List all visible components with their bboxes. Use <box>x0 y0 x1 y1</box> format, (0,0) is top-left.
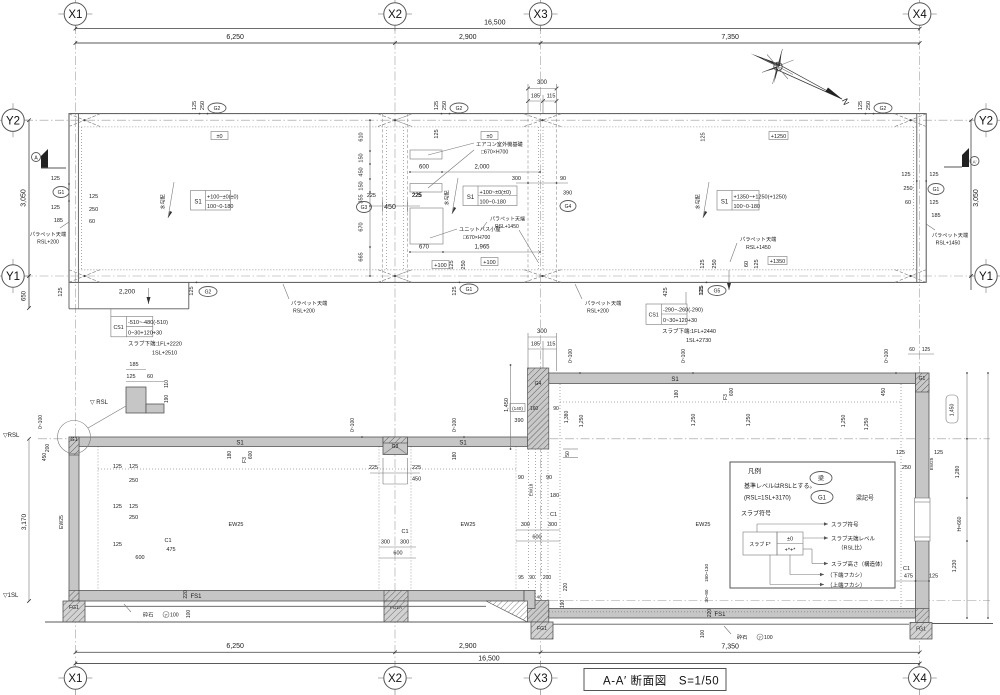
grid line X2 <box>394 25 396 662</box>
section slab S1 right <box>549 373 916 384</box>
svg-text:150: 150 <box>359 153 365 162</box>
svg-text:100~0-180: 100~0-180 <box>207 204 233 210</box>
svg-text:220: 220 <box>707 609 713 618</box>
svg-text:225: 225 <box>412 465 421 471</box>
svg-text:□670×H700: □670×H700 <box>481 150 508 156</box>
svg-text:水勾配: 水勾配 <box>695 194 702 209</box>
left dim 3170 <box>21 415 51 603</box>
section G4 label <box>535 381 542 387</box>
svg-text:95: 95 <box>518 575 524 581</box>
plan junction cross X3/Y2 <box>524 114 561 127</box>
section wall-slab junction hatch X1 <box>69 591 79 602</box>
legend slab label <box>741 510 771 518</box>
svg-text:FG1: FG1 <box>69 605 79 611</box>
plan S1 tag mid room <box>463 186 517 206</box>
svg-text:水勾配: 水勾配 <box>160 194 167 209</box>
section dotted ceiling left <box>98 468 516 470</box>
plan right wall labels <box>901 172 944 219</box>
svg-text:RSL+200: RSL+200 <box>587 309 609 315</box>
1SL level line right <box>549 600 990 602</box>
grid bubble X4 top <box>903 0 937 31</box>
svg-text:1SL+2730: 1SL+2730 <box>686 338 711 344</box>
svg-text:G1: G1 <box>466 287 473 293</box>
plan bottom label G1 mid <box>449 260 478 295</box>
section wall-slab junction hatch X2 <box>384 591 408 602</box>
plan level box ±0 mid <box>481 132 498 140</box>
svg-text:RSL+1450: RSL+1450 <box>495 224 519 230</box>
room label EW25 left <box>229 522 244 528</box>
svg-text:6,250: 6,250 <box>226 643 244 650</box>
svg-text:0~30+120+30: 0~30+120+30 <box>128 331 162 337</box>
top dim 16500 <box>74 20 922 31</box>
section beam G3 X2 <box>383 437 408 455</box>
svg-text:EW25: EW25 <box>59 515 65 529</box>
svg-text:1,230: 1,230 <box>952 560 958 573</box>
right room dims <box>691 414 847 428</box>
X2 beam dims <box>369 458 421 484</box>
svg-text:1,250: 1,250 <box>864 418 870 431</box>
svg-text:Y2: Y2 <box>6 115 20 127</box>
room label EW25 right <box>696 522 711 528</box>
svg-text:125: 125 <box>89 194 98 200</box>
section ground line left <box>45 621 531 623</box>
svg-text:スラブ符号: スラブ符号 <box>831 521 859 529</box>
legend line2 <box>744 496 791 502</box>
parapet note below plan <box>283 284 327 315</box>
CS1 tag left <box>111 309 182 357</box>
svg-text:250: 250 <box>712 259 718 268</box>
svg-text:180: 180 <box>674 390 680 399</box>
svg-text:60: 60 <box>744 261 750 267</box>
svg-text:S1: S1 <box>236 440 244 446</box>
section slab FS1 right <box>549 609 916 619</box>
svg-text:RSL+200: RSL+200 <box>37 240 59 246</box>
svg-text:125: 125 <box>51 205 60 211</box>
section wall X4 beam hatch <box>916 373 930 392</box>
svg-text:砕石: 砕石 <box>143 611 153 619</box>
svg-text:スラブ F*: スラブ F* <box>749 541 770 548</box>
svg-text:パラペット天端: パラペット天端 <box>932 231 968 239</box>
svg-text:砕石: 砕石 <box>737 633 747 641</box>
svg-text:凡例: 凡例 <box>748 466 761 475</box>
svg-text:A-A′ 断面図 S=1/50: A-A′ 断面図 S=1/50 <box>603 674 719 688</box>
plan bottom label G5 right <box>699 259 726 295</box>
svg-text:600: 600 <box>135 555 144 561</box>
svg-text:1,965: 1,965 <box>474 245 490 251</box>
grid bubble X3 top <box>524 0 558 31</box>
underslab dims left <box>227 451 254 463</box>
canopy below plan <box>69 282 189 308</box>
svg-text:G3: G3 <box>392 444 399 450</box>
plan bottom label G2 left <box>189 282 217 297</box>
svg-text:3,050: 3,050 <box>21 189 28 207</box>
svg-text:425: 425 <box>663 287 669 296</box>
plan slope arrow mid <box>444 178 459 214</box>
legend box <box>730 462 895 588</box>
svg-text:100~0-180: 100~0-180 <box>734 204 760 210</box>
svg-text:+100~±0(±0): +100~±0(±0) <box>207 194 239 200</box>
svg-text:梁: 梁 <box>818 475 824 483</box>
svg-text:390: 390 <box>563 191 572 197</box>
section gravel line right <box>553 623 909 625</box>
svg-text:600: 600 <box>393 551 402 557</box>
svg-text:180: 180 <box>227 451 233 460</box>
X2 lower dims <box>379 529 416 558</box>
svg-text:G1: G1 <box>70 437 77 443</box>
section wall X1 <box>69 437 79 601</box>
svg-text:0~100: 0~100 <box>681 349 687 363</box>
svg-text:X4: X4 <box>913 673 928 685</box>
svg-text:（下端フカシ）: （下端フカシ） <box>827 571 866 579</box>
svg-text:X4: X4 <box>913 9 928 21</box>
section wall-slab junction hatch X4 <box>916 609 930 623</box>
grid bubble Y1 left <box>0 259 30 293</box>
plan parapet note right room <box>730 235 776 262</box>
bottom dim row1 <box>74 643 922 654</box>
section dotted interior mid room <box>411 447 516 601</box>
svg-text:パラペット天端: パラペット天端 <box>30 230 66 238</box>
FS1 right dims <box>700 609 713 639</box>
section G1 bubble X1 <box>58 421 91 454</box>
svg-text:125: 125 <box>449 260 455 269</box>
plan parapet note right outside <box>926 224 968 247</box>
svg-text:G1: G1 <box>933 187 940 193</box>
svg-text:600: 600 <box>419 165 430 171</box>
unit bath note <box>430 225 501 241</box>
svg-text:1,250: 1,250 <box>841 415 847 428</box>
svg-text:150: 150 <box>359 181 365 190</box>
svg-text:▽ RSL: ▽ RSL <box>90 400 109 406</box>
svg-text:300: 300 <box>400 540 409 546</box>
svg-text:+100: +100 <box>483 260 495 266</box>
svg-text:2,200: 2,200 <box>119 289 136 296</box>
svg-text:185: 185 <box>531 342 540 348</box>
section slab FS1 left <box>78 591 524 602</box>
svg-text:6,250: 6,250 <box>226 34 244 41</box>
svg-text:90: 90 <box>560 176 566 182</box>
svg-text:G1: G1 <box>58 190 65 196</box>
svg-text:225: 225 <box>412 193 421 199</box>
svg-text:30~80: 30~80 <box>704 589 709 602</box>
section window X4 <box>915 498 931 541</box>
svg-text:RSL+200: RSL+200 <box>293 309 315 315</box>
section FS1 right dotted <box>549 611 915 613</box>
svg-text:475: 475 <box>166 547 175 553</box>
plan right wall dotted line <box>912 127 914 270</box>
svg-text:90: 90 <box>553 406 559 412</box>
above-slab 0-100 labels <box>350 349 897 438</box>
svg-text:115: 115 <box>547 342 556 348</box>
svg-text:250: 250 <box>129 515 138 521</box>
FS1 left dims <box>183 590 192 618</box>
svg-text:225: 225 <box>369 465 378 471</box>
svg-text:225: 225 <box>367 193 376 199</box>
svg-text:FG1A: FG1A <box>390 605 403 610</box>
far right dim line <box>987 372 989 619</box>
plan dim column left of X2 <box>359 119 371 277</box>
section wall X1 beam hatch <box>69 437 79 455</box>
mid room dim 670/1965 <box>409 245 541 253</box>
parapet detail L-shape <box>88 362 170 428</box>
svg-text:180: 180 <box>550 493 559 499</box>
X3 bottom dims <box>518 564 709 609</box>
svg-text:100: 100 <box>700 630 706 639</box>
plan top label G2 mid <box>434 101 468 115</box>
grid bubble Y2 left <box>0 103 30 137</box>
svg-text:220: 220 <box>563 583 569 592</box>
svg-text:スラブ符号: スラブ符号 <box>741 510 771 518</box>
plan slope arrow left <box>160 182 175 218</box>
X3 below-plan dims <box>528 329 557 371</box>
svg-text:水勾配: 水勾配 <box>444 190 451 205</box>
svg-text:Y2: Y2 <box>979 115 993 127</box>
svg-text:125: 125 <box>113 542 122 548</box>
svg-text:X3: X3 <box>534 9 548 21</box>
plan X3 dims 300-90 <box>512 176 576 212</box>
unit bath rect <box>410 208 443 244</box>
legend callouts <box>757 521 886 590</box>
svg-text:+1250: +1250 <box>771 134 786 140</box>
svg-text:100: 100 <box>764 635 773 641</box>
svg-text:125: 125 <box>922 347 931 353</box>
svg-text:+1350: +1350 <box>770 259 785 265</box>
svg-text:125: 125 <box>699 285 705 294</box>
svg-text:-290~-260(-290): -290~-260(-290) <box>663 308 703 314</box>
svg-text:S1: S1 <box>721 199 729 205</box>
svg-text:125: 125 <box>51 176 60 182</box>
svg-text:125: 125 <box>858 101 864 110</box>
svg-text:665: 665 <box>359 252 365 261</box>
svg-text:H=660: H=660 <box>957 516 963 531</box>
CS1 tag right <box>646 292 716 344</box>
section ground line beyond X4 <box>932 623 993 625</box>
detail RSL marker <box>90 400 109 406</box>
svg-text:670: 670 <box>419 245 430 251</box>
svg-text:200: 200 <box>45 444 51 453</box>
svg-text:185: 185 <box>54 218 63 224</box>
svg-text:250: 250 <box>442 101 448 110</box>
svg-text:100: 100 <box>170 613 179 619</box>
plan junction cross X2/Y2 <box>378 114 412 127</box>
plan S1 tag left room <box>191 191 239 211</box>
svg-text:3,170: 3,170 <box>21 513 28 530</box>
svg-text:パラペット天端: パラペット天端 <box>490 216 525 223</box>
svg-text:40: 40 <box>536 595 542 600</box>
grid line Y2 <box>24 119 975 121</box>
section step block <box>524 591 535 609</box>
plan junction cross X4/Y2 <box>895 114 926 127</box>
svg-text:125: 125 <box>754 259 760 268</box>
svg-text:±0: ±0 <box>216 134 222 140</box>
svg-text:1,280: 1,280 <box>955 466 961 479</box>
svg-text:610: 610 <box>359 132 365 141</box>
svg-text:RSL+1450: RSL+1450 <box>936 241 961 247</box>
svg-text:0~100: 0~100 <box>350 418 356 432</box>
svg-text:1,250: 1,250 <box>579 415 585 428</box>
section dotted ceiling right <box>560 401 901 403</box>
svg-text:190: 190 <box>164 395 170 404</box>
plan S1 tag right room <box>717 191 787 211</box>
svg-text:300: 300 <box>381 540 390 546</box>
svg-text:600: 600 <box>248 451 254 460</box>
svg-text:C1: C1 <box>164 538 171 544</box>
parapet note below plan right <box>575 284 621 315</box>
plan level box ±0 left <box>211 132 228 140</box>
svg-text:0~30+120+30: 0~30+120+30 <box>663 318 697 324</box>
aircon base rect 2 <box>410 184 442 193</box>
svg-text:190: 190 <box>560 600 566 609</box>
svg-text:EW25: EW25 <box>696 522 711 528</box>
mid room dim 600/2000 <box>409 165 541 173</box>
svg-text:S1: S1 <box>671 377 679 383</box>
svg-text:スラブ下端:1FL+2440: スラブ下端:1FL+2440 <box>662 327 716 335</box>
plan X3 top dims <box>526 80 558 114</box>
svg-text:0~100: 0~100 <box>38 415 44 429</box>
grid bubble Y2 right <box>969 103 1000 137</box>
svg-text:1,250: 1,250 <box>691 414 697 427</box>
svg-text:650: 650 <box>22 290 28 301</box>
grid line X4 <box>919 25 921 662</box>
bottom dim 16500 <box>74 656 922 666</box>
svg-text:S1: S1 <box>459 440 467 446</box>
svg-text:220: 220 <box>183 590 189 599</box>
svg-text:基準レベルはRSLとする。: 基準レベルはRSLとする。 <box>744 482 816 490</box>
plan level box +100 left <box>432 261 449 269</box>
svg-text:125: 125 <box>896 450 905 456</box>
svg-text:G4: G4 <box>565 204 572 210</box>
plan level box +100 mid <box>481 258 498 266</box>
section mark A' right <box>944 148 979 167</box>
plan X3 partition dashed <box>528 114 557 283</box>
gravel note left <box>124 604 179 619</box>
section slab S1 left <box>78 437 527 447</box>
title box <box>584 669 726 691</box>
plan junction cross X4/Y1 <box>895 270 926 283</box>
top dim row2 <box>74 34 922 45</box>
section column X3 hidden <box>529 449 549 601</box>
section footing FG1A X2 <box>384 601 408 622</box>
svg-text:160: 160 <box>530 406 539 412</box>
svg-text:60: 60 <box>905 200 911 206</box>
svg-text:125: 125 <box>901 172 910 178</box>
svg-text:125: 125 <box>434 101 440 110</box>
svg-text:スラブ天端レベル: スラブ天端レベル <box>831 535 876 543</box>
svg-text:50: 50 <box>565 451 571 457</box>
svg-text:±0: ±0 <box>787 537 793 543</box>
svg-text:300: 300 <box>512 176 521 182</box>
room label EW25 mid <box>461 522 476 528</box>
svg-text:FS1: FS1 <box>190 594 202 600</box>
svg-text:CS1: CS1 <box>114 325 124 331</box>
X3 top dims <box>504 364 585 457</box>
plan parapet note left outside <box>30 222 69 246</box>
plan junction cross X1/Y2 <box>69 114 100 127</box>
legend slab tag box <box>743 532 803 555</box>
svg-text:Y1: Y1 <box>6 271 20 283</box>
svg-text:115: 115 <box>547 94 556 100</box>
grid line Y1 <box>24 275 975 277</box>
left wall dim stack <box>59 464 176 561</box>
grid line X1 <box>74 25 76 662</box>
svg-text:X2: X2 <box>388 673 402 685</box>
svg-text:(RSL=1SL+3170): (RSL=1SL+3170) <box>744 496 791 502</box>
svg-text:X1: X1 <box>68 673 82 685</box>
grid bubble X3 bottom <box>524 661 558 695</box>
svg-text:450: 450 <box>42 453 48 462</box>
plan top wall dotted line <box>78 126 916 128</box>
svg-text:125: 125 <box>701 132 707 141</box>
svg-text:16,500: 16,500 <box>478 656 500 663</box>
svg-text:▽1SL: ▽1SL <box>3 593 19 599</box>
legend line1 <box>744 482 816 490</box>
svg-text:300: 300 <box>521 522 530 528</box>
svg-text:125: 125 <box>113 504 122 510</box>
svg-text:2,900: 2,900 <box>459 34 477 41</box>
svg-text:梁記号: 梁記号 <box>856 494 874 502</box>
svg-text:1,450: 1,450 <box>504 398 510 412</box>
svg-text:G2: G2 <box>214 106 221 112</box>
svg-text:スラブ下端:1FL+2220: スラブ下端:1FL+2220 <box>128 340 182 348</box>
svg-text:+*+*: +*+* <box>785 548 797 554</box>
svg-text:180~130: 180~130 <box>704 564 709 582</box>
svg-text:125: 125 <box>58 287 64 296</box>
svg-text:60: 60 <box>147 374 153 380</box>
plan top label G2 left <box>192 101 226 115</box>
svg-text:100: 100 <box>186 610 192 619</box>
legend title <box>748 466 761 475</box>
svg-text:0~100: 0~100 <box>884 349 890 363</box>
svg-text:C1: C1 <box>550 512 557 518</box>
grid bubble X4 bottom <box>903 661 937 695</box>
underslab dims right room <box>674 388 735 400</box>
svg-text:250: 250 <box>903 186 912 192</box>
svg-text:16,500: 16,500 <box>484 20 506 27</box>
svg-text:250: 250 <box>89 207 98 213</box>
plan right room top 125 <box>701 132 707 141</box>
section footing FG1 X1 <box>63 601 85 622</box>
section slab S1 left label <box>236 440 467 446</box>
X3 wall dims <box>516 475 560 541</box>
svg-text:1,380: 1,380 <box>564 411 570 424</box>
svg-text:125: 125 <box>113 464 122 470</box>
svg-text:X1: X1 <box>68 9 82 21</box>
plan slope arrow right <box>695 182 710 218</box>
svg-text:S1: S1 <box>194 199 202 205</box>
svg-text:60: 60 <box>89 219 95 225</box>
section wall X4 <box>916 373 930 618</box>
svg-text:300: 300 <box>537 329 548 335</box>
plan level box +1350 right <box>768 257 787 265</box>
svg-text:450: 450 <box>384 204 396 211</box>
grid bubble X1 top <box>58 0 92 31</box>
plan top label G2 right <box>858 101 892 115</box>
svg-text:90: 90 <box>529 575 535 581</box>
svg-text:125: 125 <box>126 374 135 380</box>
svg-text:125: 125 <box>189 286 195 295</box>
plan left wall inner line <box>77 114 79 283</box>
plan left wall inside dims <box>89 194 98 225</box>
right dim 3050 <box>969 118 980 290</box>
svg-text:S1: S1 <box>467 195 475 201</box>
svg-text:パラペット天端: パラペット天端 <box>585 299 621 307</box>
svg-text:250: 250 <box>866 101 872 110</box>
svg-text:C1: C1 <box>401 529 408 535</box>
svg-text:7,350: 7,350 <box>721 34 739 41</box>
X4 top dims <box>908 347 934 354</box>
section footing FG1 X3 <box>531 622 553 639</box>
plan right wall inner line <box>916 114 918 283</box>
svg-text:エアコン室外機基礎: エアコン室外機基礎 <box>476 140 524 148</box>
